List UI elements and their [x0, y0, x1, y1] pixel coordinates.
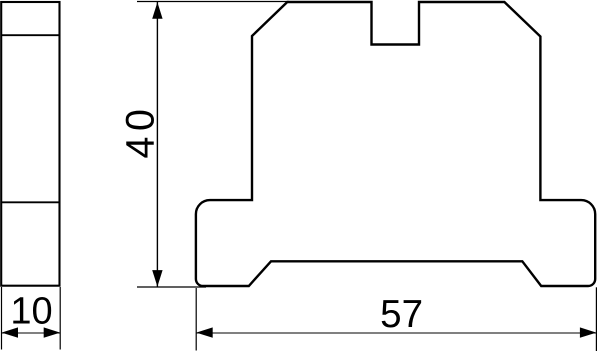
arrowhead left of dim 10	[2, 327, 19, 337]
extension line right of dim 57	[595, 287, 597, 351]
arrowhead left of dim 57	[196, 327, 213, 337]
arrowhead right of dim 57	[580, 327, 597, 337]
side view outline (left view rectangle)	[1, 2, 59, 286]
svg-text:57: 57	[380, 293, 423, 336]
extension line left of dim 10	[1, 287, 3, 350]
extension line right of dim 10	[59, 287, 61, 350]
svg-text:40: 40	[119, 104, 163, 159]
arrowhead top of dim 40	[152, 2, 162, 19]
arrowhead bottom of dim 40	[152, 270, 162, 287]
part outline (front view of terminal block profile)	[196, 2, 595, 286]
dimension line 10	[2, 332, 61, 334]
side view parting line upper	[1, 34, 59, 36]
extension line left of dim 57	[195, 288, 197, 351]
side view parting line lower	[1, 201, 59, 203]
dimension line 57	[196, 332, 596, 334]
extension line top of dim 40	[137, 1, 289, 3]
extension line bottom of dim 40	[137, 286, 206, 288]
arrowhead right of dim 10	[44, 327, 61, 337]
dimension line 40	[156, 2, 158, 287]
svg-text:10: 10	[10, 291, 52, 333]
